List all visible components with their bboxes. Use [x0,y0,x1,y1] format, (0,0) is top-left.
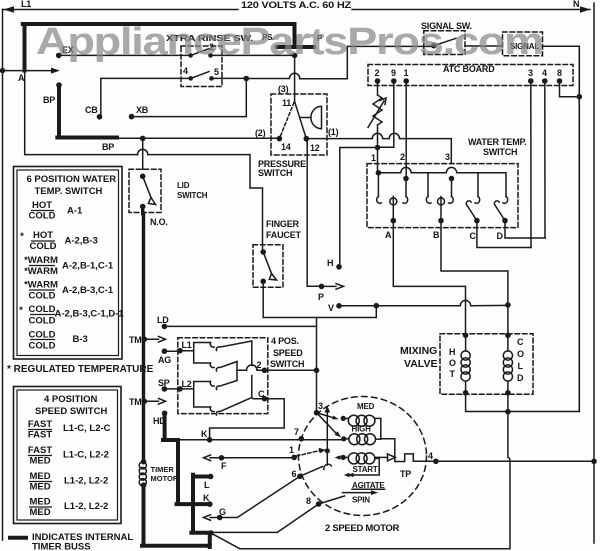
wire thick lid to timer motor buss [141,207,145,462]
svg-text:MOTOR: MOTOR [151,474,179,483]
wire F to motor 1 [222,457,295,459]
wire SP to L2 [164,388,180,390]
wire diagonal to thick node [212,533,240,548]
svg-text:N.O.: N.O. [150,217,168,227]
svg-text:HOT: HOT [32,200,52,211]
svg-text:H: H [327,258,333,268]
svg-text:COLD: COLD [29,291,56,302]
svg-text:SWITCH: SWITCH [483,147,517,157]
svg-text:11: 11 [282,98,291,108]
wire speed junction vertical [316,318,318,413]
svg-text:L: L [518,361,524,371]
svg-text:3: 3 [445,152,450,162]
svg-text:*WARM: *WARM [24,280,58,291]
svg-text:COLD: COLD [29,316,56,327]
wire pressure 12 down to P [306,139,321,287]
svg-text:A-2,B-3,C-1,D-1: A-2,B-3,C-1,D-1 [55,309,125,320]
node speed 2 [262,368,268,374]
dashed actuator from 1 [297,451,321,457]
svg-text:A-2,B-3,C-1: A-2,B-3,C-1 [62,285,114,296]
node WTS 2 terminal [403,176,409,182]
wire ATC 9 down [378,81,394,147]
WTS pole A circle [392,197,394,221]
svg-text:COLD: COLD [29,341,56,352]
node HOT top [463,333,469,339]
wire pressure 12 to WTS 3 [306,133,451,163]
svg-text:B-3: B-3 [73,334,88,345]
svg-text:(3): (3) [278,84,289,94]
node junction EX-pressure [292,53,298,59]
wire thick timer buss top [23,24,314,71]
node COLD top [505,333,511,339]
svg-text:B: B [433,230,440,240]
svg-text:K: K [201,429,208,439]
node signal-8 junction [577,94,583,100]
wire 6 to curl [300,467,323,477]
node EX [56,53,62,59]
svg-text:120 VOLTS A.C. 60 HZ: 120 VOLTS A.C. 60 HZ [241,0,352,10]
node 14 [277,136,283,142]
node lid feed junction [140,136,146,142]
TP open triangle [388,454,396,461]
svg-text:V: V [328,303,334,313]
wire pressure switch feed down [294,55,296,101]
wire valve common down with jog over 4 line [240,393,510,549]
svg-text:O: O [517,349,524,359]
svg-text:A-1: A-1 [67,206,83,217]
svg-text:*WARM: *WARM [24,255,58,266]
svg-text:SWITCH: SWITCH [270,359,304,369]
wire node A to timer arrow [3,70,53,72]
svg-text:HIGH: HIGH [352,425,372,434]
signal sw box [424,31,465,55]
svg-text:TIMER: TIMER [151,465,175,474]
wire spine to terminal 2 with blade1-4 vertical hopped [251,341,253,398]
buzzer symbol in pressure switch [301,106,322,128]
svg-text:C: C [258,389,265,399]
svg-text:C: C [470,231,477,241]
svg-text:8: 8 [306,496,311,506]
wire LD to junction [164,325,316,327]
svg-text:4 POS.: 4 POS. [271,336,299,346]
wire 2 to junction [265,369,317,371]
table 6 position water temp switch [14,167,123,360]
node XB [129,114,135,120]
wire 4 line to right frame [436,460,594,462]
svg-text:SWITCH: SWITCH [258,168,292,178]
svg-text:A-2,B-3: A-2,B-3 [65,236,98,247]
svg-text:FAST: FAST [28,445,52,456]
wire ATC 3 down [530,81,532,248]
node speed C [262,396,268,402]
wire ATC 1 down to WTS 2 [405,81,407,197]
svg-text:G: G [219,507,226,517]
svg-text:3: 3 [318,401,323,411]
svg-text:2: 2 [375,68,380,78]
svg-text:LD: LD [157,315,169,325]
svg-text:L1-C, L2-2: L1-C, L2-2 [63,450,109,461]
node HD [162,411,168,417]
wire P arrow [322,285,337,287]
svg-text:AGITATE: AGITATE [352,481,385,490]
wire hop over lid feed [138,149,148,154]
lid switch top node [140,174,146,180]
svg-text:H: H [449,347,455,357]
svg-text:FINGER: FINGER [266,219,300,229]
svg-text:COLD: COLD [29,304,56,315]
node CB [97,114,103,120]
node 12 [304,136,310,142]
node motor 1 [291,455,297,461]
START winding [341,455,346,460]
node L2 [177,386,183,392]
lid switch bottom node [140,204,146,210]
wire V line with hop over A wire [339,300,508,305]
speed switch blade row3 [216,381,237,390]
svg-text:SPEED SWITCH: SPEED SWITCH [35,406,107,417]
node TM upper [142,336,148,342]
svg-text:D: D [497,231,504,241]
svg-text:BP: BP [102,142,114,152]
node HOT bottom [463,390,469,396]
svg-text:A-2,B-1,C-1: A-2,B-1,C-1 [62,261,114,272]
L2 feed bracket [180,382,211,408]
svg-text:SP: SP [158,378,170,388]
svg-text:HOT: HOT [33,230,53,241]
wire B to COLD valve [441,221,508,336]
wire start right + agitate loop [350,457,379,475]
xtra rinse sw contact 1-2 [188,53,193,58]
node V [336,303,342,309]
wire thick L-G spine [191,475,210,533]
centrifugal curl [324,464,332,469]
wire faucet to V junction [263,281,376,317]
node motor 7 [299,436,305,442]
agitate underline [352,488,385,490]
svg-text:L1: L1 [21,0,31,9]
node L1 arrowhead left [4,6,15,13]
wire CB up and right to 4-5 [100,78,191,116]
svg-text:8: 8 [557,68,562,78]
wire TP step [395,454,436,462]
svg-text:P: P [318,292,324,302]
WTS stationary hooks row [377,197,382,204]
svg-text:A: A [385,230,392,240]
svg-text:L1: L1 [182,340,192,350]
node 4 [433,459,439,465]
svg-text:CB: CB [85,105,98,115]
wire junction to H [340,148,378,267]
speed switch box [178,338,268,414]
svg-text:4: 4 [542,68,547,78]
svg-text:BP: BP [43,95,55,105]
svg-text:SPEED: SPEED [273,348,303,358]
svg-text:*WARM: *WARM [24,266,58,277]
svg-text:O: O [449,358,456,368]
pressure switch blade 11-14 dashed [279,103,294,139]
node G [217,515,223,521]
svg-text:SWITCH: SWITCH [177,191,208,200]
8 blade to spin [319,496,345,504]
svg-text:7: 7 [294,427,299,437]
wire right frame border [593,3,595,543]
wire G arrow line [204,515,220,521]
wire thick BP buss [57,85,117,137]
svg-text:A: A [18,73,25,83]
svg-text:AppliancePartsPros.com: AppliancePartsPros.com [36,21,543,63]
node P [319,284,325,290]
svg-text:MED: MED [29,482,50,493]
finger faucet top node [260,249,266,255]
svg-text:HD: HD [153,416,166,426]
svg-text:VALVE: VALVE [404,358,437,370]
COLD solenoid coil [507,335,509,351]
svg-text:3: 3 [528,68,533,78]
wire A branch down left [25,71,263,252]
wire F arrow line [204,455,222,461]
svg-text:2: 2 [257,360,262,370]
svg-text:MED: MED [29,507,50,518]
node motor 3 [314,410,320,416]
wire XB line [132,79,247,117]
svg-text:T: T [450,369,456,379]
variable resistor ATC 2 [373,81,382,148]
wire HIGH to TP bus [381,439,395,462]
node resistor-9-H junction [375,145,381,151]
node motor 6 [297,474,303,480]
xtra rinse switch box [181,46,222,87]
wire left frame border [2,10,4,541]
svg-text:F: F [221,461,227,471]
finger faucet bottom node [260,279,266,285]
svg-text:TEMP. SWITCH: TEMP. SWITCH [35,186,103,197]
wire signal to right bus [543,46,580,411]
spin arrow [343,492,372,494]
wire G to motor 6 [220,476,300,517]
svg-text:2: 2 [400,152,405,162]
speed switch blade row1 [216,341,252,351]
finger faucet blade [263,252,271,274]
pressure switch box [271,94,327,155]
svg-text:TM: TM [129,335,142,345]
svg-text:START: START [353,465,378,474]
wire valve commons to right bus [466,46,580,411]
svg-text:COLD: COLD [29,330,56,341]
ATC board box [368,65,573,86]
pressure switch blade 11-12 [295,102,307,139]
water temp switch box [367,164,518,228]
svg-text:K: K [203,493,210,503]
node K2 [207,501,213,507]
svg-text:4: 4 [428,451,433,461]
svg-text:XB: XB [136,105,149,115]
svg-text:L1-2, L2-2: L1-2, L2-2 [64,476,108,487]
WTS inner bus with hops [378,167,506,196]
node F [219,455,225,461]
svg-text:(2): (2) [255,128,266,138]
svg-text:FAST: FAST [28,419,52,430]
svg-text:(1): (1) [328,127,339,137]
svg-text:1: 1 [371,153,376,163]
node LD [162,324,168,330]
svg-text:5: 5 [214,67,219,77]
svg-text:*: * [19,305,23,316]
wire ATC 4 down [544,81,546,238]
motor blade 3 to HIGH [317,413,337,434]
wire signal sw to signal [465,45,503,47]
speed switch blade row4 [216,398,252,416]
HOT solenoid coil [465,335,467,351]
signal sw node and blade [431,43,437,49]
xtra rinse sw contact 4-5 [188,76,193,81]
node SP [162,386,168,392]
node COLD bottom [505,390,511,396]
svg-text:MED: MED [357,402,375,411]
wire 8 diagonal to bottom junction [211,504,319,532]
wire junction onward with hop over pressure feed [246,46,433,78]
signal box [503,32,543,56]
lid switch box [129,169,161,212]
WTS pole B circle [440,197,442,221]
motor blade 3 to MED [317,413,334,418]
resistor arrow [368,101,384,128]
motor dashed circle [299,397,427,516]
lid switch blade [143,176,151,197]
node BP [56,82,62,88]
wire start to TP triangle [379,456,387,458]
svg-text:4: 4 [183,66,188,76]
mixing valve box [440,334,533,395]
wire A to HOT valve [393,221,465,336]
WTS blade C [467,205,477,221]
node L1 [177,348,183,354]
start arrow [335,455,341,460]
node N arrowhead right [580,6,591,13]
svg-text:14: 14 [281,142,291,152]
svg-text:L: L [204,480,210,490]
svg-text:L1-C, L2-C: L1-C, L2-C [63,423,111,434]
wire junction down to WTS 1 [377,148,379,173]
node A [0,68,5,73]
wire MED right drop [375,418,381,438]
svg-text:AG: AG [158,355,171,365]
svg-text:L2: L2 [182,379,192,389]
wire 5 to XB junction [212,77,247,79]
node thick bottom junction [208,530,214,536]
wire D to ATC 4 [505,221,545,238]
svg-text:TM: TM [129,397,142,407]
node AG [162,348,168,354]
node L [208,474,214,480]
speed switch spine [236,362,238,381]
svg-text:MED: MED [29,471,50,482]
wire L1-N 120V AC line [3,9,591,11]
node motor 8 [316,501,322,507]
node V-faucet junction [374,303,380,309]
svg-text:ATC BOARD: ATC BOARD [443,64,495,74]
svg-text:2 SPEED MOTOR: 2 SPEED MOTOR [325,523,399,534]
wire thick HD spine [163,413,210,504]
speed switch blade row2 [216,362,237,372]
svg-text:COLD: COLD [30,241,57,252]
wire TM arrow lower [144,399,165,405]
svg-text:MIXING: MIXING [400,345,437,357]
svg-text:6: 6 [292,469,297,479]
svg-text:4 POSITION: 4 POSITION [44,394,97,405]
node WTS 3 terminal [449,176,455,182]
svg-text:MED: MED [29,456,50,467]
wire AG to L1 [164,350,180,352]
svg-text:6 POSITION WATER: 6 POSITION WATER [27,174,117,185]
WTS blade D [495,205,505,221]
node H [336,264,342,270]
svg-text:L1-2, L2-2: L1-2, L2-2 [64,501,108,512]
wire thick timer U [142,485,210,547]
node TM lower [142,399,148,405]
timer motor coil [141,459,147,465]
agitate double arrowheads [344,473,354,477]
wire C to ATC 3 [477,221,531,248]
finger faucet box [253,245,283,287]
wire EX line [59,54,295,56]
WTS bus drops to contacts [378,173,478,197]
svg-text:SPIN: SPIN [352,496,370,505]
table 4 position speed switch [14,387,122,524]
wire ATC 8 to right bus [560,81,580,97]
svg-text:C: C [517,337,524,347]
node B-COLD junction [505,302,511,308]
ATC terminal nodes [375,78,381,84]
svg-text:WATER TEMP.: WATER TEMP. [468,137,526,147]
svg-text:*: * [20,231,24,242]
wire TM arrow upper [144,336,165,342]
svg-text:FAUCET: FAUCET [266,230,302,240]
node 2-junction [314,368,320,374]
wire C line [252,398,265,399]
node XB junction [244,76,250,82]
svg-text:TIMER BUSS: TIMER BUSS [32,542,91,551]
svg-text:12: 12 [310,143,320,153]
wire BP to pressure 14 [117,137,279,139]
svg-text:9: 9 [391,68,396,78]
svg-text:N: N [573,0,579,9]
HIGH winding [341,436,346,441]
speed switch contact hooks [210,343,214,348]
L1 feed bracket [180,343,211,364]
MED winding [341,416,346,421]
node WTS 1 [376,170,382,176]
svg-text:1: 1 [404,68,409,78]
svg-text:LID: LID [177,181,190,190]
node 4 line right frame [591,459,597,465]
wire K line to motor 7 [178,439,344,441]
svg-text:* REGULATED TEMPERATURE: * REGULATED TEMPERATURE [7,364,154,375]
svg-text:1: 1 [289,445,294,455]
node K1 [207,437,213,443]
svg-text:MED: MED [29,497,50,508]
wire C to K [210,399,285,440]
svg-text:TP: TP [400,469,411,479]
legend indicates internal timer buss [8,536,28,540]
svg-text:COLD: COLD [29,211,56,222]
svg-text:D: D [517,373,524,383]
centrifugal arm [326,412,328,466]
wire lid switch feed [142,138,144,169]
svg-text:FAST: FAST [28,430,52,441]
